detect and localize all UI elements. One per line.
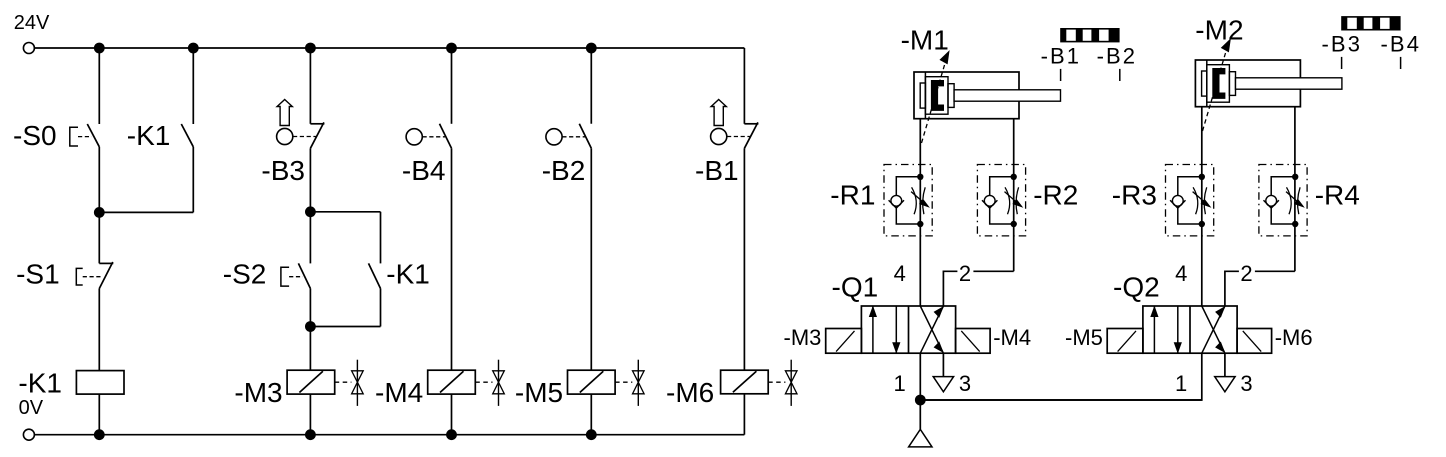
node (top) in -R4 xyxy=(1292,174,1298,180)
contact -K1 (NO, parallel with -S2) xyxy=(369,263,381,288)
wire xyxy=(192,147,194,213)
solenoid coil -M5 xyxy=(568,370,616,394)
junction on 0V rail xyxy=(94,429,105,440)
svg-text:1: 1 xyxy=(1175,371,1187,396)
solenoid coil -M6 xyxy=(721,370,769,394)
wire 24V rail xyxy=(34,47,744,49)
pilot valve symbol of -M5 xyxy=(615,381,632,383)
svg-text:-K1: -K1 xyxy=(127,120,171,151)
svg-text:-R3: -R3 xyxy=(1112,179,1157,210)
junction on 0V rail xyxy=(586,429,597,440)
pilot valve symbol of -M3 xyxy=(335,381,352,383)
check valve ball of -R2 xyxy=(984,195,995,206)
cylinder -M1 cushion plate xyxy=(920,83,925,108)
check valve branch of -R1 xyxy=(896,177,920,224)
terminal 0V xyxy=(23,429,34,440)
svg-text:-S1: -S1 xyxy=(16,258,60,289)
svg-text:-Q1: -Q1 xyxy=(832,272,879,303)
svg-text:-M2: -M2 xyxy=(1195,15,1243,46)
wire xyxy=(309,289,311,371)
node (top) in -R1 xyxy=(917,174,923,180)
svg-text:-B1: -B1 xyxy=(695,155,739,186)
svg-text:4: 4 xyxy=(1175,261,1187,286)
wire xyxy=(380,289,382,327)
pipe (cylinder -M1 left port to valve -Q1 port 4 through -R1) xyxy=(919,119,921,306)
solenoid -M3 (left pilot of -Q1) xyxy=(826,329,862,354)
throttle arcs of -R3 xyxy=(1193,187,1198,214)
pilot valve symbol of -M6 xyxy=(768,381,785,383)
adjust arrow of -R2 xyxy=(1005,192,1017,203)
wire xyxy=(99,211,193,213)
junction on 24V rail xyxy=(446,43,457,54)
cylinder -M1 piston xyxy=(925,77,948,115)
cylinder -M1 piston rod xyxy=(954,90,1060,101)
node (bottom) in -R2 xyxy=(1011,221,1017,227)
tick mark -B3 xyxy=(1341,57,1343,69)
junction on 0V rail xyxy=(305,429,316,440)
wire xyxy=(380,212,382,264)
pipe to compressed air source xyxy=(919,400,921,429)
svg-text:1: 1 xyxy=(894,371,906,396)
adjust arrow of -R4 xyxy=(1286,192,1298,203)
svg-text:-S0: -S0 xyxy=(13,120,57,151)
svg-text:-B2: -B2 xyxy=(1097,44,1138,69)
svg-text:2: 2 xyxy=(1240,261,1252,286)
terminal 24V xyxy=(23,43,34,54)
svg-text:-B4: -B4 xyxy=(1381,32,1422,57)
cylinder -M2 rod collar xyxy=(1229,72,1235,96)
node (bottom) in -R1 xyxy=(917,221,923,227)
wire xyxy=(590,148,592,370)
wire xyxy=(310,326,380,328)
valve -Q1 crossed-flow arrows (right position) xyxy=(920,306,943,353)
wire xyxy=(451,48,453,124)
check valve branch of -R4 xyxy=(1271,177,1295,224)
svg-text:-B4: -B4 xyxy=(402,155,446,186)
cylinder -M2 piston magnet xyxy=(1212,68,1225,99)
svg-text:-K1: -K1 xyxy=(386,258,430,289)
tick mark -B1 xyxy=(1060,69,1062,81)
cylinder -M1 rod collar xyxy=(948,84,954,108)
flow control valve -R1 enclosure xyxy=(884,165,932,236)
svg-text:-M4: -M4 xyxy=(375,377,423,408)
check valve ball of -R4 xyxy=(1266,195,1277,206)
wire xyxy=(743,394,745,435)
actuation arrow of -B1 xyxy=(711,100,726,126)
pipe (valve -Q2 port 1 to supply line) xyxy=(920,353,1202,400)
junction on 24V rail xyxy=(586,43,597,54)
svg-text:24V: 24V xyxy=(14,12,50,34)
cylinder -M2 body xyxy=(1195,60,1300,107)
check valve branch of -R3 xyxy=(1178,177,1202,224)
svg-text:-R4: -R4 xyxy=(1315,179,1360,210)
check valve ball of -R1 xyxy=(891,195,902,206)
tick mark -B4 xyxy=(1400,57,1402,69)
valve -Q2 crossed-flow arrows (right position) xyxy=(1202,306,1225,353)
wire xyxy=(743,148,745,370)
wire xyxy=(309,48,311,124)
valve -Q1 body xyxy=(861,306,955,353)
svg-text:-M6: -M6 xyxy=(1275,325,1313,350)
junction node xyxy=(305,321,316,332)
adjust arrow of -R1 xyxy=(911,192,923,203)
valve -Q1 straight-flow arrows (left position) xyxy=(872,306,874,353)
exhaust at port 3 of -Q1 xyxy=(942,353,944,376)
wire xyxy=(451,394,453,435)
solenoid coil -M4 xyxy=(428,370,476,394)
relay coil -K1 xyxy=(76,371,124,395)
wire xyxy=(590,48,592,124)
contact -S1 (NC pushbutton) xyxy=(99,262,113,264)
svg-text:-B1: -B1 xyxy=(1041,44,1082,69)
contact -B2 (NO proximity) xyxy=(579,124,591,149)
solenoid -M4 (right pilot of -Q1) xyxy=(956,329,991,354)
junction on 0V rail xyxy=(446,429,457,440)
wire xyxy=(98,147,100,264)
wire xyxy=(310,211,380,213)
wire xyxy=(309,394,311,435)
svg-text:-M4: -M4 xyxy=(993,325,1031,350)
svg-text:-B3: -B3 xyxy=(261,155,305,186)
wire xyxy=(590,394,592,435)
junction on 24V rail xyxy=(188,43,199,54)
pipe (cylinder -M1 right port through -R2) xyxy=(1013,119,1015,272)
sensor scale ruler for -B1/-B2 xyxy=(1060,28,1119,42)
wire xyxy=(451,148,453,370)
pilot valve symbol of -M4 xyxy=(475,381,492,383)
junction node xyxy=(94,207,105,218)
contact -B4 (NO proximity) xyxy=(440,124,452,149)
junction on supply line xyxy=(915,395,926,406)
wire xyxy=(98,48,100,124)
svg-text:-M6: -M6 xyxy=(666,377,714,408)
solenoid -M6 (right pilot of -Q2) xyxy=(1237,329,1272,354)
solenoid coil -M3 xyxy=(287,370,335,394)
wire xyxy=(309,148,311,263)
cylinder -M1 piston magnet xyxy=(931,80,944,111)
pipe (valve -Q1 port 2 riser) xyxy=(943,271,1013,306)
supply line between -Q1 and -Q2 xyxy=(920,399,1202,401)
svg-text:-Q2: -Q2 xyxy=(1113,272,1160,303)
solenoid -M5 (left pilot of -Q2) xyxy=(1107,329,1143,354)
svg-text:-K1: -K1 xyxy=(18,367,62,398)
stroke-direction arrow of -M1 xyxy=(922,65,945,143)
svg-text:3: 3 xyxy=(1240,371,1252,396)
svg-text:-S2: -S2 xyxy=(223,258,267,289)
contact -S2 (NO pushbutton) xyxy=(298,263,310,288)
node (bottom) in -R3 xyxy=(1199,221,1205,227)
svg-text:-R2: -R2 xyxy=(1033,179,1078,210)
adjust arrow of -R3 xyxy=(1193,192,1205,203)
contact -B1 (NC proximity) xyxy=(744,123,758,125)
exhaust at port 3 of -Q2 xyxy=(1224,353,1226,376)
cylinder -M2 cushion plate xyxy=(1202,71,1207,96)
wire 0V rail xyxy=(34,434,744,436)
pipe (valve -Q2 port 2 riser) xyxy=(1225,271,1295,306)
contact -B3 (NC proximity) xyxy=(310,123,324,125)
port label 2 of -Q1 xyxy=(957,264,973,282)
pipe (valve -Q1 port 1 to supply) xyxy=(919,353,921,400)
valve -Q2 body xyxy=(1143,306,1237,353)
check valve ball of -R3 xyxy=(1172,195,1183,206)
junction on 24V rail xyxy=(94,43,105,54)
throttle arcs of -R1 xyxy=(912,187,917,214)
cylinder -M2 piston rod xyxy=(1236,78,1342,89)
throttle arcs of -R2 xyxy=(1005,187,1010,214)
pipe (cylinder -M2 right port through -R4) xyxy=(1294,107,1296,272)
valve -Q2 straight-flow arrows (left position) xyxy=(1153,306,1155,353)
svg-text:-M3: -M3 xyxy=(234,377,282,408)
wire xyxy=(743,48,745,124)
sensor scale ruler for -B3/-B4 xyxy=(1341,16,1400,30)
node (bottom) in -R4 xyxy=(1292,221,1298,227)
svg-text:0V: 0V xyxy=(19,397,44,419)
wire xyxy=(98,289,100,371)
flow control valve -R4 enclosure xyxy=(1259,165,1307,236)
node (top) in -R2 xyxy=(1011,174,1017,180)
contact -K1 (NO) xyxy=(181,124,193,147)
cylinder -M2 piston xyxy=(1207,65,1230,103)
svg-text:-R1: -R1 xyxy=(830,179,875,210)
svg-text:2: 2 xyxy=(959,261,971,286)
flow control valve -R2 enclosure xyxy=(977,165,1025,236)
pipe (cylinder -M2 left port to valve -Q2 port 4 through -R3) xyxy=(1201,107,1203,306)
tick mark -B2 xyxy=(1119,69,1121,81)
wire xyxy=(192,48,194,124)
actuation arrow of -B3 xyxy=(277,100,292,126)
node (top) in -R3 xyxy=(1199,174,1205,180)
junction on 24V rail xyxy=(305,43,316,54)
svg-text:4: 4 xyxy=(894,261,906,286)
throttle arcs of -R4 xyxy=(1287,187,1292,214)
stroke-direction arrow of -M2 xyxy=(1203,53,1226,131)
contact -S0 (NO pushbutton) xyxy=(87,124,99,147)
check valve branch of -R2 xyxy=(990,177,1014,224)
junction node xyxy=(305,206,316,217)
svg-text:3: 3 xyxy=(959,371,971,396)
wire xyxy=(98,394,100,435)
svg-text:-B3: -B3 xyxy=(1322,32,1363,57)
svg-text:-M3: -M3 xyxy=(784,325,822,350)
flow control valve -R3 enclosure xyxy=(1166,165,1214,236)
port label 2 of -Q2 xyxy=(1239,264,1255,282)
svg-text:-B2: -B2 xyxy=(542,155,586,186)
svg-text:-M1: -M1 xyxy=(901,25,949,56)
compressed air source xyxy=(909,429,932,447)
cylinder -M1 body xyxy=(914,72,1019,119)
svg-text:-M5: -M5 xyxy=(1065,325,1103,350)
svg-text:-M5: -M5 xyxy=(515,377,563,408)
